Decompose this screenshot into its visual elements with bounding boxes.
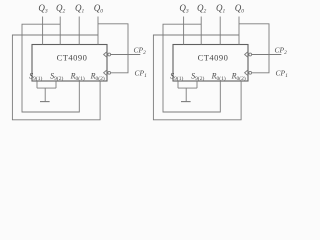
bubble CP1 xyxy=(108,71,111,74)
svg-text:Q1: Q1 xyxy=(75,3,85,15)
wire S9 tie bar (U2) xyxy=(178,87,197,89)
wire ground stub (U2) xyxy=(185,88,187,101)
wire Q0 to CP1 (U2) xyxy=(239,24,269,73)
wire Q0 to R0(2) feedback loop (U2) xyxy=(153,35,241,120)
wire Q1 riser (U2) xyxy=(219,17,221,45)
wedge CP1 edge-trigger (U2) xyxy=(245,70,248,76)
svg-text:S9(1): S9(1) xyxy=(29,72,42,83)
svg-text:Q0: Q0 xyxy=(94,3,104,15)
wire Q3 riser xyxy=(42,17,44,45)
svg-text:Q0: Q0 xyxy=(235,3,245,15)
wire Q2 riser (U2) xyxy=(200,17,202,45)
bubble CP2 xyxy=(108,53,111,56)
wire Q1 riser xyxy=(78,17,80,45)
wire Q2 riser xyxy=(59,17,61,45)
svg-text:S9(1): S9(1) xyxy=(170,72,183,83)
wire Q2 to R0(1) feedback loop (U2) xyxy=(163,24,220,112)
svg-text:CP2: CP2 xyxy=(275,45,288,56)
svg-text:Q1: Q1 xyxy=(216,3,226,15)
ground GND2 xyxy=(181,101,191,103)
svg-text:CP2: CP2 xyxy=(134,45,147,56)
wire Q3 riser (U2) xyxy=(183,17,185,45)
svg-text:CP1: CP1 xyxy=(135,69,148,80)
svg-text:Q3: Q3 xyxy=(179,3,189,15)
svg-text:CP1: CP1 xyxy=(276,69,289,80)
svg-text:CT4090: CT4090 xyxy=(198,53,229,63)
wire Q0 to CP1 xyxy=(98,24,128,73)
wedge CP1 edge-trigger xyxy=(104,70,107,76)
wire S9(1) stub xyxy=(36,81,38,88)
wire Q2 to R0(1) feedback loop xyxy=(22,24,79,112)
wedge CP2 edge-trigger (U2) xyxy=(245,52,248,58)
bubble CP2 (U2) xyxy=(249,53,252,56)
wire S9 tie bar xyxy=(37,87,56,89)
wire CP2 input stub xyxy=(111,54,141,56)
IC U2 CT4090 xyxy=(173,45,248,82)
wire S9(2) stub (U2) xyxy=(196,81,198,88)
svg-text:Q3: Q3 xyxy=(38,3,48,15)
svg-text:Q2: Q2 xyxy=(197,3,207,15)
wire Q0 riser (U2) xyxy=(238,17,240,45)
bubble CP1 (U2) xyxy=(249,71,252,74)
wire Q0 to R0(2) feedback loop xyxy=(12,35,100,120)
svg-text:Q2: Q2 xyxy=(56,3,66,15)
ground GND1 xyxy=(40,101,50,103)
wire Q0 riser xyxy=(97,17,99,45)
wire CP2 input stub (U2) xyxy=(252,54,282,56)
wire S9(2) stub xyxy=(55,81,57,88)
wire ground stub xyxy=(44,88,46,101)
IC U1 CT4090 xyxy=(32,45,107,82)
svg-text:CT4090: CT4090 xyxy=(57,53,88,63)
wire S9(1) stub (U2) xyxy=(177,81,179,88)
wedge CP2 edge-trigger xyxy=(104,52,107,58)
